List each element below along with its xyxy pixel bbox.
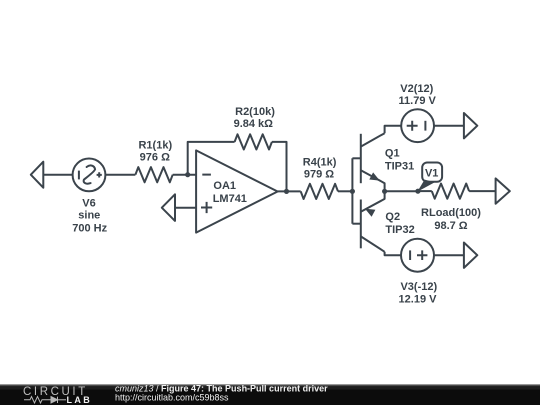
voltage source V6 (sine) — [73, 159, 106, 192]
svg-text:V2(12): V2(12) — [400, 83, 433, 95]
port P_V2 — [464, 113, 477, 138]
op-amp plus sign — [201, 202, 212, 213]
op-amp OA1 triangle — [196, 150, 278, 232]
transistor Q2 (PNP TIP32) — [352, 191, 384, 252]
svg-text:LM741: LM741 — [213, 193, 247, 205]
svg-text:TIP31: TIP31 — [385, 161, 414, 173]
svg-text:R1(1k): R1(1k) — [138, 140, 172, 152]
wire R4 to base node — [338, 190, 352, 192]
node junction at bases — [350, 189, 355, 194]
svg-text:700 Hz: 700 Hz — [72, 222, 107, 234]
svg-text:RLoad(100): RLoad(100) — [421, 207, 481, 219]
wire R1 to op-amp inverting input — [173, 174, 196, 176]
wire V2 to port — [434, 125, 464, 127]
svg-text:TIP32: TIP32 — [385, 224, 414, 236]
svg-text:979 Ω: 979 Ω — [304, 168, 334, 180]
probe V1 pointer — [417, 180, 435, 192]
svg-text:LAB: LAB — [67, 395, 93, 405]
wire feedback up — [188, 142, 235, 175]
resistor R2 — [235, 134, 272, 149]
probe V1 box — [422, 163, 442, 182]
op-amp minus sign — [202, 174, 211, 176]
node junction at inverting input — [185, 172, 190, 177]
port P_plus (non-inverting input port) — [162, 194, 175, 221]
node junction at output — [284, 189, 289, 194]
wire emitters to V1 node — [385, 190, 418, 192]
resistor RLoad — [432, 184, 469, 199]
port P_in (left input port) — [31, 162, 44, 188]
wire op-amp output — [278, 190, 301, 192]
wire Q1 collector to V2 — [385, 126, 402, 134]
svg-text:R2(10k): R2(10k) — [235, 106, 275, 118]
svg-text:11.79 V: 11.79 V — [399, 95, 437, 107]
node junction at emitters — [382, 189, 387, 194]
wire Q2 collector to V3 — [385, 252, 401, 255]
svg-text:Q2: Q2 — [385, 211, 400, 223]
svg-text:V6: V6 — [82, 198, 95, 210]
svg-text:sine: sine — [78, 209, 100, 221]
wire V3 to port — [434, 254, 464, 256]
wire RLoad to port — [469, 190, 496, 192]
svg-text:V3(-12): V3(-12) — [400, 281, 437, 293]
transistor Q1 (NPN TIP31) — [352, 133, 384, 191]
wire plus port to op-amp — [175, 207, 196, 209]
svg-text:9.84 kΩ: 9.84 kΩ — [234, 118, 274, 130]
svg-text:98.7 Ω: 98.7 Ω — [434, 220, 467, 232]
voltage source V2 — [401, 109, 434, 142]
voltage source V3 — [401, 239, 434, 272]
node junction V1 probe — [415, 189, 420, 194]
wire V1 node to RLoad — [418, 190, 432, 192]
svg-text:V1: V1 — [425, 167, 438, 179]
resistor R1 — [135, 167, 172, 182]
wire base vertical — [351, 158, 353, 223]
svg-text:12.19 V: 12.19 V — [399, 294, 438, 306]
wire feedback down to output node — [272, 142, 287, 192]
port P_out — [496, 178, 510, 203]
svg-text:976 Ω: 976 Ω — [140, 151, 170, 163]
footer bar — [0, 385, 540, 405]
svg-text:http://circuitlab.com/c59b8ss: http://circuitlab.com/c59b8ss — [115, 393, 229, 403]
svg-text:Q1: Q1 — [385, 148, 400, 160]
resistor R4 — [301, 184, 338, 199]
svg-text:OA1: OA1 — [213, 180, 236, 192]
port P_V3 — [464, 243, 477, 268]
svg-text:R4(1k): R4(1k) — [303, 157, 337, 169]
wire V6 to R1 — [105, 174, 135, 176]
logo squiggle with diode — [24, 397, 66, 403]
wire port to V6 — [43, 174, 72, 176]
